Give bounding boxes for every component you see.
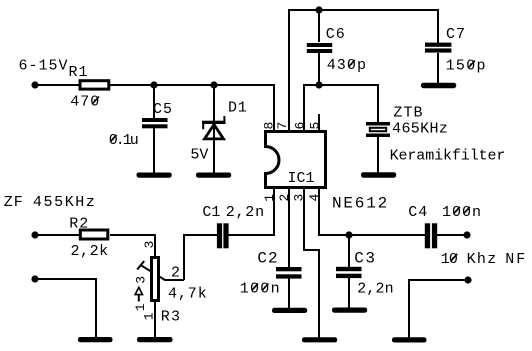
svg-text:465KHz: 465KHz bbox=[392, 121, 448, 138]
svg-text:C1: C1 bbox=[202, 204, 220, 221]
svg-text:1: 1 bbox=[142, 312, 157, 320]
svg-text:4: 4 bbox=[307, 194, 322, 202]
svg-text:2,2k: 2,2k bbox=[71, 243, 109, 260]
svg-text:2,2n: 2,2n bbox=[357, 281, 394, 298]
svg-text:1: 1 bbox=[262, 194, 277, 202]
svg-text:3: 3 bbox=[292, 194, 307, 202]
svg-text:NE612: NE612 bbox=[332, 195, 389, 213]
svg-text:C5: C5 bbox=[153, 101, 173, 118]
svg-text:C4: C4 bbox=[408, 204, 428, 221]
svg-text:R2: R2 bbox=[69, 216, 89, 233]
svg-text:6: 6 bbox=[293, 122, 308, 130]
svg-text:4,7k: 4,7k bbox=[168, 286, 208, 303]
svg-text:150p: 150p bbox=[446, 58, 487, 75]
svg-text:6-15V: 6-15V bbox=[19, 58, 69, 75]
svg-text:R1: R1 bbox=[69, 64, 89, 81]
svg-text:Keramikfilter: Keramikfilter bbox=[390, 147, 506, 164]
svg-text:NF: NF bbox=[505, 251, 527, 268]
svg-text:5: 5 bbox=[308, 122, 323, 130]
svg-text:100n: 100n bbox=[240, 281, 281, 298]
svg-text:10: 10 bbox=[441, 251, 458, 268]
svg-text:2: 2 bbox=[277, 194, 292, 202]
svg-text:Khz: Khz bbox=[467, 251, 498, 268]
svg-text:IC1: IC1 bbox=[288, 170, 315, 187]
svg-text:C2: C2 bbox=[257, 250, 278, 268]
svg-text:100n: 100n bbox=[442, 204, 482, 221]
svg-text:2: 2 bbox=[171, 264, 180, 281]
svg-text:R3: R3 bbox=[161, 309, 182, 326]
svg-text:2,2n: 2,2n bbox=[226, 204, 265, 221]
svg-text:3: 3 bbox=[133, 276, 148, 284]
svg-text:ZTB: ZTB bbox=[393, 105, 423, 122]
svg-text:470: 470 bbox=[70, 94, 100, 111]
svg-text:430p: 430p bbox=[327, 57, 367, 74]
svg-text:3: 3 bbox=[142, 241, 157, 249]
svg-text:5V: 5V bbox=[190, 146, 208, 163]
svg-text:C6: C6 bbox=[326, 26, 346, 43]
svg-text:ZF: ZF bbox=[4, 194, 24, 211]
svg-text:D1: D1 bbox=[228, 100, 248, 117]
svg-text:0.1u: 0.1u bbox=[109, 132, 138, 149]
svg-text:1: 1 bbox=[133, 303, 148, 311]
svg-text:7: 7 bbox=[275, 122, 290, 130]
svg-text:C7: C7 bbox=[446, 26, 466, 43]
svg-text:C3: C3 bbox=[354, 250, 376, 268]
svg-text:455KHz: 455KHz bbox=[33, 194, 97, 211]
